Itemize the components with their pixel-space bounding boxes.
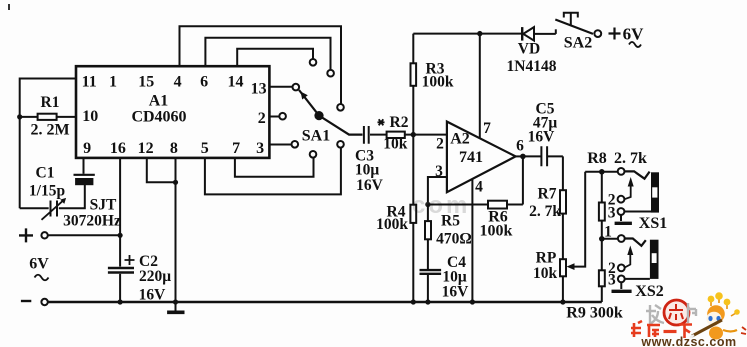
node VDD rail <box>118 233 123 238</box>
resistor R3 <box>411 34 454 135</box>
svg-text:741: 741 <box>459 149 483 166</box>
svg-text:10μ: 10μ <box>355 162 380 179</box>
svg-text:SA1: SA1 <box>302 128 330 145</box>
node pin4 rail <box>470 299 475 304</box>
capacitor C1 (trimmer) <box>20 165 85 220</box>
logo magnifier ring <box>664 300 689 325</box>
wire pin 2 stub <box>269 116 279 118</box>
wire pin 6 overhead <box>205 38 330 70</box>
SA1 contact 4 <box>337 104 344 111</box>
svg-text:2. 7k: 2. 7k <box>529 203 561 220</box>
svg-text:4: 4 <box>475 179 483 196</box>
svg-text:16V: 16V <box>442 284 470 301</box>
svg-text:16: 16 <box>110 140 126 157</box>
svg-text:15: 15 <box>138 74 154 91</box>
node A (R1 left) <box>17 114 22 119</box>
svg-text:4: 4 <box>174 74 182 91</box>
resistor R9 <box>566 239 623 322</box>
svg-text:R8: R8 <box>587 150 607 167</box>
logo char xin <box>669 304 683 320</box>
svg-text:SJT: SJT <box>90 197 117 214</box>
svg-text:8: 8 <box>170 140 178 157</box>
SA1 contact 5 <box>337 141 344 148</box>
svg-text:7: 7 <box>232 140 240 157</box>
wire R8 top row <box>585 171 618 173</box>
logo text weikuyixia <box>631 321 692 338</box>
label 6V supply <box>29 256 49 281</box>
wire pin 8 down <box>175 158 177 302</box>
SA1 contact 2 <box>279 113 286 120</box>
capacitor C5 <box>523 101 563 167</box>
wire pin 11 to left rail <box>20 79 76 209</box>
svg-text:9: 9 <box>83 140 91 157</box>
diode VD 1N4148 <box>507 27 557 75</box>
output node 6 <box>516 155 523 157</box>
capacitor C2 <box>108 253 171 304</box>
svg-text:R2: R2 <box>390 114 409 131</box>
svg-text:SA2: SA2 <box>564 35 592 52</box>
wire pin 14 overhead <box>237 49 313 66</box>
crystal SJT 30720Hz <box>63 158 121 230</box>
plus terminal <box>19 228 120 242</box>
svg-text:100k: 100k <box>422 74 454 91</box>
SA1 contact 3 <box>292 141 299 148</box>
resistor R7 <box>529 156 566 259</box>
wire pin 16 down <box>119 158 121 267</box>
SA1 contact 14 <box>310 59 317 66</box>
svg-text:1/15p: 1/15p <box>29 183 65 200</box>
node R8 top <box>599 169 605 175</box>
svg-text:2: 2 <box>258 110 266 127</box>
svg-text:3: 3 <box>256 140 264 157</box>
resistor R5 <box>425 205 472 270</box>
svg-text:A1: A1 <box>149 93 169 110</box>
svg-text:14: 14 <box>228 74 244 91</box>
SA1 contact 13 <box>293 84 300 91</box>
resistor R6 <box>428 156 523 239</box>
IC A1 labels <box>82 74 267 158</box>
svg-text:100k: 100k <box>480 223 513 240</box>
svg-text:6V: 6V <box>623 25 645 44</box>
wire top supply <box>413 33 522 35</box>
svg-text:R5: R5 <box>441 213 460 230</box>
op-amp A2 741 <box>435 120 524 196</box>
logo char pian <box>688 303 696 323</box>
svg-text:16V: 16V <box>528 129 556 146</box>
wire pin 4 op-amp down <box>471 180 473 303</box>
jack XS1 <box>608 168 667 232</box>
svg-text:2. 7k: 2. 7k <box>614 150 647 167</box>
svg-text:1N4148: 1N4148 <box>507 58 557 75</box>
svg-text:C1: C1 <box>36 165 55 182</box>
node R2/R3/R4 <box>411 132 416 137</box>
svg-text:3: 3 <box>608 205 616 222</box>
svg-text:R7: R7 <box>538 186 557 203</box>
svg-text:7: 7 <box>483 120 491 137</box>
label +6V <box>609 25 645 48</box>
svg-text:XS1: XS1 <box>639 215 667 232</box>
wire pin 7 op-amp <box>479 34 481 138</box>
node R4 rail <box>411 299 416 304</box>
SA1 contact 7 <box>310 151 317 158</box>
svg-text:13: 13 <box>251 81 267 98</box>
node XS2 pin1 <box>599 236 605 242</box>
svg-text:R9 300k: R9 300k <box>566 305 623 322</box>
svg-text:www.dzsc.com: www.dzsc.com <box>640 335 736 347</box>
switch SA2 pushbutton <box>555 13 601 52</box>
node pin8/12 <box>173 180 178 185</box>
svg-text:10k: 10k <box>533 265 558 282</box>
wire pin 7 to SA1 contact <box>235 158 314 177</box>
minus terminal <box>21 299 48 305</box>
svg-text:1: 1 <box>604 224 612 241</box>
switch SA1 wiper <box>299 90 363 145</box>
svg-text:3: 3 <box>608 272 616 289</box>
ground <box>167 299 184 312</box>
svg-text:2: 2 <box>436 136 444 153</box>
logo watermark bottom right <box>631 292 746 347</box>
svg-text:RP: RP <box>536 250 557 267</box>
svg-text:10k: 10k <box>383 136 408 153</box>
svg-text:100k: 100k <box>376 216 408 233</box>
node C2 bottom <box>118 299 123 304</box>
svg-text:A2: A2 <box>450 131 470 148</box>
wire pin 5 to SA1 contact <box>205 148 341 195</box>
svg-text:1: 1 <box>109 74 117 91</box>
svg-text:2. 2M: 2. 2M <box>30 122 69 139</box>
svg-text:VD: VD <box>518 41 540 58</box>
IC U A1 CD4060 body <box>76 66 269 158</box>
svg-text:11: 11 <box>82 74 97 91</box>
wire pin 3 op-amp <box>428 177 447 202</box>
wire pin 13 stub <box>269 86 292 88</box>
svg-text:6: 6 <box>200 74 208 91</box>
capacitor C4 <box>420 254 470 302</box>
node RP rail <box>560 299 565 304</box>
resistor R8 <box>599 172 605 239</box>
svg-text:6: 6 <box>516 138 524 155</box>
svg-text:6V: 6V <box>29 256 49 273</box>
svg-text:30720Hz: 30720Hz <box>63 213 121 230</box>
svg-text:XS2: XS2 <box>635 283 663 300</box>
bottom rail <box>48 301 602 303</box>
speck top-left <box>8 4 10 10</box>
jack XS2 <box>602 224 664 301</box>
logo mascot <box>690 292 746 339</box>
svg-text:16V: 16V <box>356 177 384 194</box>
wire pin 3 stub <box>269 144 291 146</box>
node C4 rail <box>425 299 430 304</box>
node pin7 top <box>477 31 482 36</box>
capacitor C3 <box>355 126 387 194</box>
resistor R4 <box>376 135 416 302</box>
logo char zhao <box>646 305 664 324</box>
resistor R1 <box>20 94 76 139</box>
wire pin 12 <box>147 158 176 182</box>
svg-text:12: 12 <box>138 140 154 157</box>
svg-text:5: 5 <box>201 140 209 157</box>
svg-text:CD4060: CD4060 <box>131 109 186 126</box>
svg-text:470Ω: 470Ω <box>436 231 472 248</box>
svg-text:220μ: 220μ <box>139 268 171 285</box>
potentiometer RP <box>533 172 585 302</box>
node pin3/R5/R6 <box>425 202 430 207</box>
svg-text:R1: R1 <box>41 94 60 111</box>
svg-text:10: 10 <box>82 108 98 125</box>
SA1 contact 6 <box>327 70 334 77</box>
wire pin 4 overhead <box>180 26 342 104</box>
resistor R2 <box>378 114 447 153</box>
